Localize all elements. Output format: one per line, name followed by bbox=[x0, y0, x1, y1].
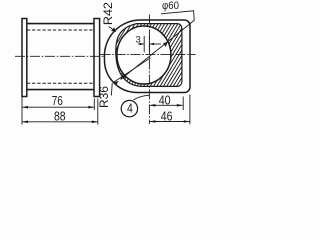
R36 text stub bbox=[110, 83, 113, 96]
arrow 88 left bbox=[22, 121, 28, 124]
body bottom line bbox=[27, 89, 94, 91]
horizontal centerline (dash-dot) bbox=[101, 54, 196, 56]
svg-text:R36: R36 bbox=[99, 86, 111, 108]
svg-text:φ60: φ60 bbox=[162, 0, 179, 12]
left flange (side view rectangle) bbox=[22, 19, 27, 97]
R42 leader bbox=[109, 27, 115, 32]
axis centerline (dash-dot) bbox=[15, 55, 104, 57]
outer center tick (solid over centerline) bbox=[148, 36, 150, 52]
arrow 88 right bbox=[92, 121, 98, 124]
svg-text:4: 4 bbox=[127, 101, 133, 116]
hole ellipse φ60 bbox=[117, 26, 171, 84]
φ60 leader polyline bbox=[121, 11, 195, 80]
svg-text:40: 40 bbox=[159, 93, 171, 108]
φ60 arrow at leader end bbox=[121, 74, 126, 80]
circled 4 bbox=[121, 100, 137, 116]
46 extension right (outer edge) bbox=[189, 95, 191, 125]
dim 40 line bbox=[149, 104, 182, 106]
dim 46 line bbox=[149, 121, 189, 123]
arrow 76 left bbox=[22, 106, 28, 109]
inner body contour (flat top/right/bottom, big arcs left) bbox=[116, 24, 182, 87]
φ60 arrow at upper circle crossing bbox=[163, 41, 168, 47]
dim 3: right arrow with tail bbox=[149, 43, 161, 45]
extension line left (under left flange) bbox=[21, 97, 23, 125]
hole vertical centerline tick bbox=[143, 36, 145, 52]
svg-text:3: 3 bbox=[136, 35, 141, 46]
extension line for 88 right bbox=[97, 99, 99, 125]
hidden hole top (dashed) bbox=[27, 29, 94, 31]
right flange (side view rectangle) bbox=[94, 19, 100, 97]
svg-text:76: 76 bbox=[52, 93, 63, 108]
outer flange profile (R42 top-left arc, R36 bottom-left arc, rounded right corners) bbox=[104, 20, 190, 93]
leader of circled 4 bbox=[134, 95, 150, 100]
dimension 88 line bbox=[22, 121, 98, 123]
svg-text:R42: R42 bbox=[101, 2, 115, 25]
extension line for 76 right bbox=[93, 99, 95, 111]
R36 radius line bbox=[113, 58, 150, 83]
svg-text:88: 88 bbox=[54, 109, 66, 124]
vertical centerline (dash-dot) bbox=[148, 15, 150, 125]
svg-text:46: 46 bbox=[161, 108, 173, 123]
dim 3: left arrow bbox=[138, 43, 144, 45]
arrow 76 right bbox=[88, 106, 94, 109]
40 extension right (inner contour edge) bbox=[182, 97, 184, 111]
hidden hole bottom (dashed) bbox=[27, 82, 94, 84]
dimension 76 line bbox=[22, 106, 94, 108]
hatching (section lines) bbox=[55, 13, 244, 102]
body top line bbox=[27, 23, 94, 25]
